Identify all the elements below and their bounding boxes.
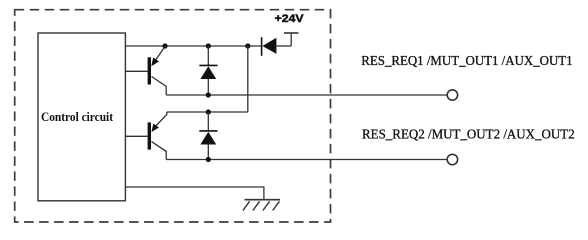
diode D1 (flyback) bbox=[199, 46, 217, 95]
diode D2 (flyback) bbox=[199, 112, 217, 160]
terminal circle output 2 bbox=[447, 154, 457, 164]
svg-text:Control circuit: Control circuit bbox=[41, 109, 114, 124]
wire top +24V rail bbox=[125, 45, 261, 47]
terminal circle output 1 bbox=[447, 90, 457, 100]
node rail-branch junction bbox=[245, 43, 250, 48]
wire Q1 base lead bbox=[125, 70, 147, 72]
wire line C (output 2) bbox=[166, 159, 447, 161]
dashed enclosure border bbox=[15, 10, 331, 222]
svg-text:RES_REQ1 /MUT_OUT1 /AUX_OUT1: RES_REQ1 /MUT_OUT1 /AUX_OUT1 bbox=[361, 54, 572, 69]
transistor Q1 (PNP) bbox=[148, 47, 167, 96]
svg-text:+24V: +24V bbox=[275, 13, 305, 25]
svg-text:RES_REQ2 /MUT_OUT2 /AUX_OUT2: RES_REQ2 /MUT_OUT2 /AUX_OUT2 bbox=[362, 127, 575, 142]
wire line A (output 1) bbox=[166, 94, 447, 96]
node lineA-D1 junction bbox=[206, 92, 211, 97]
wire branch to line B bbox=[247, 46, 249, 112]
+24V supply terminal bbox=[284, 33, 299, 46]
control circuit box U1 bbox=[38, 33, 125, 201]
node rail-D1 junction bbox=[206, 43, 211, 48]
ground bbox=[243, 200, 280, 211]
wire ground lead bbox=[125, 187, 264, 200]
node rail-emitter1 junction bbox=[162, 43, 167, 48]
diode D3 (series diode to +24V) bbox=[262, 37, 292, 56]
wire Q2 base lead bbox=[125, 135, 147, 137]
node lineB-D2 junction bbox=[206, 109, 211, 114]
wire line B (Q2 emitter feed) bbox=[167, 111, 248, 113]
node lineC-D2 junction bbox=[206, 157, 211, 162]
transistor Q2 (PNP) bbox=[148, 112, 167, 160]
